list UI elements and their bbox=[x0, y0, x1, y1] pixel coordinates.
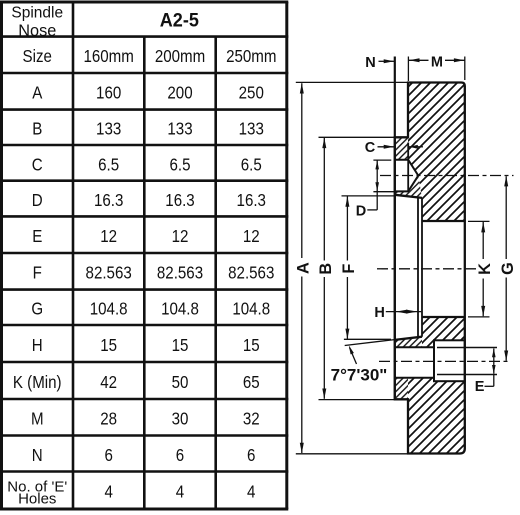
svg-text:Nose: Nose bbox=[18, 22, 56, 40]
upper pocket outline bbox=[395, 160, 419, 192]
nose face line (with N extension above) bbox=[394, 57, 396, 400]
dim F extension line (top) bbox=[342, 195, 395, 197]
svg-text:12: 12 bbox=[100, 226, 117, 247]
dim K line+arrows bbox=[482, 222, 484, 259]
svg-text:6.5: 6.5 bbox=[169, 154, 190, 175]
upper pocket right edge + C extension bbox=[407, 143, 409, 192]
svg-text:32: 32 bbox=[243, 408, 260, 429]
dim N line+arrow bbox=[379, 60, 395, 62]
dim B extension lines bbox=[319, 136, 395, 138]
svg-text:200: 200 bbox=[167, 82, 192, 103]
taper angle leader+arrow bbox=[350, 348, 357, 365]
lower cam-lock pocket (white) bbox=[395, 347, 434, 378]
dim M extension lines bbox=[407, 57, 409, 82]
svg-text:M: M bbox=[31, 408, 44, 429]
svg-text:K: K bbox=[476, 263, 494, 275]
E stud hole boss (white) bbox=[434, 340, 465, 381]
spindle body cross-section (hatched silhouette) bbox=[395, 83, 465, 454]
svg-text:42: 42 bbox=[100, 372, 117, 393]
fine hatch: sliver below upper pocket bbox=[395, 176, 422, 198]
lower pocket bottom edge bbox=[395, 377, 434, 379]
svg-text:N: N bbox=[32, 445, 43, 466]
svg-text:A: A bbox=[32, 82, 43, 103]
dim H line+arrows bbox=[386, 311, 422, 313]
lower pocket top edge bbox=[395, 346, 434, 348]
body outline stroke bbox=[395, 83, 465, 454]
svg-text:160: 160 bbox=[96, 82, 121, 103]
E hole bottom edge / extension bbox=[437, 374, 497, 376]
svg-text:133: 133 bbox=[96, 118, 121, 139]
svg-text:104.8: 104.8 bbox=[232, 298, 270, 319]
svg-text:6: 6 bbox=[104, 445, 112, 466]
svg-text:D: D bbox=[32, 190, 43, 211]
svg-text:N: N bbox=[365, 55, 375, 71]
fine hatch: step land below lower pocket bbox=[395, 378, 408, 400]
dim D line+arrows bbox=[376, 160, 378, 210]
svg-text:G: G bbox=[499, 262, 517, 275]
svg-text:4: 4 bbox=[104, 481, 112, 502]
dim E leader+label bbox=[493, 374, 495, 386]
dim A extension lines bbox=[296, 81, 408, 83]
dim M line+arrows bbox=[408, 59, 428, 61]
dim D leader+label bbox=[367, 209, 377, 211]
lower taper line bbox=[395, 337, 422, 340]
svg-text:4: 4 bbox=[176, 481, 184, 502]
svg-text:B: B bbox=[317, 263, 335, 275]
svg-text:G: G bbox=[31, 298, 43, 319]
svg-text:28: 28 bbox=[100, 408, 117, 429]
svg-text:200mm: 200mm bbox=[155, 46, 205, 67]
lower cam hole centerline bbox=[379, 360, 511, 362]
svg-text:16.3: 16.3 bbox=[237, 190, 266, 211]
svg-text:F: F bbox=[33, 262, 42, 283]
dim D extension lines bbox=[373, 159, 391, 161]
dim C line+arrows bbox=[378, 146, 395, 148]
upper cam-lock pocket (white) bbox=[395, 160, 419, 192]
svg-text:250mm: 250mm bbox=[226, 46, 276, 67]
svg-text:15: 15 bbox=[172, 335, 189, 356]
spindle bore (white) bbox=[422, 221, 465, 317]
E hole top edge / extension bbox=[437, 347, 497, 349]
dim G line+arrows bbox=[505, 176, 507, 259]
svg-text:K (Min): K (Min) bbox=[13, 372, 62, 393]
inner vertical edge line 2 bbox=[421, 198, 423, 337]
dim K extension lines bbox=[468, 220, 490, 222]
svg-text:C: C bbox=[32, 154, 43, 175]
svg-text:A2-5: A2-5 bbox=[160, 9, 199, 31]
dim B line+arrows bbox=[323, 138, 325, 261]
svg-text:Spindle: Spindle bbox=[11, 5, 63, 22]
dim F line+arrows bbox=[346, 196, 348, 260]
svg-text:16.3: 16.3 bbox=[165, 190, 194, 211]
svg-text:E: E bbox=[32, 226, 42, 247]
dim A line+arrows bbox=[301, 83, 303, 258]
svg-text:H: H bbox=[32, 335, 43, 356]
fine hatch: step land above pocket bbox=[395, 137, 408, 159]
svg-text:50: 50 bbox=[172, 372, 189, 393]
svg-text:133: 133 bbox=[239, 118, 264, 139]
main spindle centerline bbox=[377, 268, 478, 270]
svg-text:82.563: 82.563 bbox=[157, 262, 203, 283]
svg-text:D: D bbox=[356, 203, 366, 219]
svg-text:6.5: 6.5 bbox=[98, 154, 119, 175]
svg-text:250: 250 bbox=[239, 82, 264, 103]
taper socket interior (white) bbox=[395, 195, 422, 340]
svg-text:M: M bbox=[431, 55, 443, 71]
svg-text:12: 12 bbox=[243, 226, 260, 247]
svg-text:A: A bbox=[295, 262, 313, 274]
svg-text:82.563: 82.563 bbox=[228, 262, 274, 283]
svg-text:16.3: 16.3 bbox=[94, 190, 123, 211]
svg-text:E: E bbox=[475, 379, 485, 395]
svg-text:H: H bbox=[374, 305, 384, 321]
svg-text:160mm: 160mm bbox=[83, 46, 133, 67]
svg-text:Size: Size bbox=[23, 46, 52, 67]
svg-text:6.5: 6.5 bbox=[241, 154, 262, 175]
fine hatch: band above lower pocket bbox=[395, 337, 422, 348]
svg-text:133: 133 bbox=[167, 118, 192, 139]
taper angle slanted line bbox=[345, 340, 395, 346]
dim E line+arrows bbox=[493, 349, 495, 374]
upper taper line bbox=[395, 195, 422, 198]
E boss outline bbox=[434, 340, 465, 381]
inner vertical edge line 1 bbox=[417, 197, 419, 337]
svg-text:65: 65 bbox=[243, 372, 260, 393]
svg-text:12: 12 bbox=[172, 226, 189, 247]
svg-text:B: B bbox=[32, 118, 42, 139]
svg-text:15: 15 bbox=[100, 335, 117, 356]
upper cam hole centerline bbox=[380, 175, 514, 177]
svg-text:Holes: Holes bbox=[18, 490, 56, 507]
spec table grid bbox=[0, 1, 288, 4]
svg-text:6: 6 bbox=[176, 445, 184, 466]
svg-text:6: 6 bbox=[247, 445, 255, 466]
svg-text:C: C bbox=[365, 140, 376, 156]
svg-text:4: 4 bbox=[247, 481, 255, 502]
svg-text:7°7'30": 7°7'30" bbox=[331, 366, 388, 385]
bore top edge bbox=[422, 220, 465, 222]
svg-text:104.8: 104.8 bbox=[161, 298, 199, 319]
bore bottom edge bbox=[422, 316, 465, 318]
svg-text:104.8: 104.8 bbox=[90, 298, 128, 319]
svg-text:15: 15 bbox=[243, 335, 260, 356]
svg-text:82.563: 82.563 bbox=[86, 262, 132, 283]
taper angle reference line bbox=[344, 338, 391, 340]
svg-text:F: F bbox=[340, 264, 358, 274]
svg-text:30: 30 bbox=[172, 408, 189, 429]
